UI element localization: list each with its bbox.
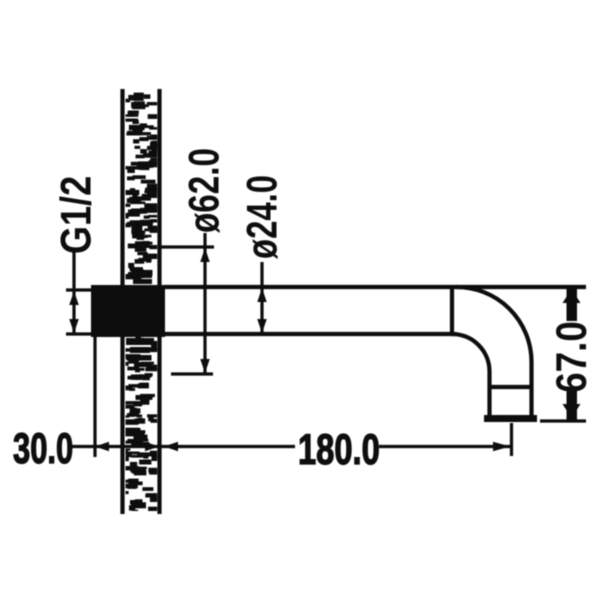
svg-text:180.0: 180.0 — [298, 426, 380, 474]
svg-text:30.0: 30.0 — [13, 425, 73, 473]
svg-text:67.0: 67.0 — [548, 321, 596, 393]
svg-text:ø62.0: ø62.0 — [181, 148, 229, 233]
svg-text:ø24.0: ø24.0 — [239, 175, 287, 259]
svg-text:G1/2: G1/2 — [53, 176, 101, 254]
